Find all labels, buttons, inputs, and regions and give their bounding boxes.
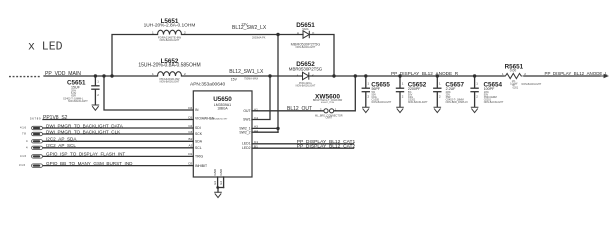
svg-text:NON-BACKLIGHT: NON-BACKLIGHT <box>160 81 180 84</box>
svg-text:D2: D2 <box>188 161 192 165</box>
svg-text:A: A <box>297 74 299 78</box>
svg-text:A4: A4 <box>254 129 258 133</box>
svg-text:x LED: x LED <box>28 41 63 54</box>
svg-text:PP_DISPLAY_BL12_CAT2: PP_DISPLAY_BL12_CAT2 <box>297 144 356 150</box>
svg-text:NON-BACKLIGHT: NON-BACKLIGHT <box>372 101 392 104</box>
svg-text:K: K <box>313 31 315 35</box>
svg-text:0201: 0201 <box>513 87 519 90</box>
svg-text:IN: IN <box>195 108 199 112</box>
svg-text:NON-BACKLIGHT: NON-BACKLIGHT <box>296 46 316 49</box>
svg-text:A2: A2 <box>189 144 193 148</box>
svg-text:4 1 6: 4 1 6 <box>20 154 26 158</box>
svg-text:OMIT: OMIT <box>326 116 333 120</box>
svg-text:SW2_2: SW2_2 <box>239 131 250 135</box>
svg-text:2000MA-PK: 2000MA-PK <box>252 36 266 39</box>
svg-text:NON-BACKLIGHT: NON-BACKLIGHT <box>296 85 316 88</box>
svg-text:D3: D3 <box>188 115 192 119</box>
svg-text:5A6A: 5A6A <box>302 27 309 31</box>
svg-text:5 6 7 8 9: 5 6 7 8 9 <box>30 117 41 121</box>
svg-text:C1: C1 <box>254 140 258 144</box>
svg-text:MBR0530P2T5G: MBR0530P2T5G <box>289 67 323 72</box>
svg-text:18BGA: 18BGA <box>217 106 228 110</box>
svg-text:C4: C4 <box>254 116 258 120</box>
svg-text:7 8: 7 8 <box>22 132 26 136</box>
svg-text:GND: GND <box>213 168 217 176</box>
svg-text:BL12_SW2_LX: BL12_SW2_LX <box>232 25 267 31</box>
svg-text:GPIO_ISP_TO_DISPLAY_FLASH_INT: GPIO_ISP_TO_DISPLAY_FLASH_INT <box>46 152 125 157</box>
svg-text:LED2: LED2 <box>242 146 251 150</box>
svg-text:SDI: SDI <box>195 126 201 130</box>
svg-text:DWI_PMGR_TO_BACKLIGHT_CLK: DWI_PMGR_TO_BACKLIGHT_CLK <box>46 129 121 134</box>
svg-text:23V: 23V <box>242 22 249 26</box>
svg-text:1: 1 <box>152 72 154 76</box>
svg-text:2: 2 <box>184 31 186 35</box>
svg-text:SW1: SW1 <box>243 118 250 122</box>
svg-text:OUT: OUT <box>243 109 250 113</box>
svg-text:A1: A1 <box>254 107 258 111</box>
svg-text:I2C2_AP_SCL: I2C2_AP_SCL <box>46 143 76 148</box>
svg-text:TRIG: TRIG <box>195 155 203 159</box>
svg-text:C2: C2 <box>188 124 192 128</box>
svg-text:GPIO_BB_TO_MANY_GSM_BURST_IND: GPIO_BB_TO_MANY_GSM_BURST_IND <box>46 161 133 166</box>
svg-text:PP_DISPLAY_BL12_ANODE_L: PP_DISPLAY_BL12_ANODE_L <box>545 71 608 76</box>
svg-text:2: 2 <box>184 72 186 76</box>
svg-text:B1: B1 <box>254 144 258 148</box>
svg-text:LED1: LED1 <box>242 142 251 146</box>
svg-text:BL12_SW1_LX: BL12_SW1_LX <box>229 69 264 75</box>
svg-text:D4: D4 <box>188 106 192 110</box>
svg-text:750MA-MAX: 750MA-MAX <box>244 78 259 81</box>
svg-text:15UH-20%-0.8A-0.585OHM: 15UH-20%-0.8A-0.585OHM <box>138 62 200 68</box>
svg-text:E3: E3 <box>213 181 217 185</box>
svg-text:60GHT_CON: 60GHT_CON <box>321 102 335 104</box>
svg-text:K: K <box>312 74 314 78</box>
svg-text:NON-BACKLIGHT: NON-BACKLIGHT <box>68 100 88 103</box>
svg-text:4 1 6: 4 1 6 <box>20 126 26 130</box>
svg-text:I2C2_AP_SDA: I2C2_AP_SDA <box>46 137 77 142</box>
svg-text:C3: C3 <box>188 130 192 134</box>
svg-text:3 1 6: 3 1 6 <box>19 163 25 167</box>
svg-text:INHIBIT: INHIBIT <box>195 164 207 168</box>
svg-text:SCL: SCL <box>195 146 202 150</box>
svg-text:NON-BACKLIGHT: NON-BACKLIGHT <box>160 39 180 42</box>
svg-text:D1: D1 <box>188 152 192 156</box>
svg-text:NON-BACKLIGHT: NON-BACKLIGHT <box>484 101 504 104</box>
svg-text:B2: B2 <box>189 137 193 141</box>
svg-text:BL12_OUT: BL12_OUT <box>287 106 312 112</box>
svg-text:SCK: SCK <box>195 132 203 136</box>
svg-text:NON-BACKLIGHT: NON-BACKLIGHT <box>522 83 542 86</box>
svg-text:NON-BACKLIGHT: NON-BACKLIGHT <box>211 118 228 121</box>
svg-text:PP1V8_S2: PP1V8_S2 <box>43 115 68 121</box>
svg-text:A: A <box>297 31 299 35</box>
svg-text:PP_VDD_MAIN: PP_VDD_MAIN <box>45 71 81 77</box>
svg-text:2: 2 <box>320 107 322 111</box>
svg-text:E4: E4 <box>219 181 223 185</box>
svg-text:1: 1 <box>335 107 337 111</box>
svg-text:0.00: 0.00 <box>510 69 517 73</box>
svg-text:PP_DISPLAY_BL12_ANODE_R: PP_DISPLAY_BL12_ANODE_R <box>391 71 459 76</box>
svg-text:NON-BDR_DISPLAY: NON-BDR_DISPLAY <box>446 101 469 104</box>
svg-text:DWI_PMGR_TO_BACKLIGHT_DATA: DWI_PMGR_TO_BACKLIGHT_DATA <box>46 123 124 128</box>
svg-text:1UH-20%-2.8A-0.1OHM: 1UH-20%-2.8A-0.1OHM <box>144 23 196 29</box>
svg-text:1: 1 <box>152 31 154 35</box>
svg-text:GND: GND <box>219 168 223 176</box>
svg-text:SDA: SDA <box>195 140 203 144</box>
svg-text:NON-BACKLIGHT: NON-BACKLIGHT <box>408 101 428 104</box>
svg-text:APN:353a00640: APN:353a00640 <box>190 82 226 88</box>
svg-text:15V: 15V <box>231 77 238 81</box>
